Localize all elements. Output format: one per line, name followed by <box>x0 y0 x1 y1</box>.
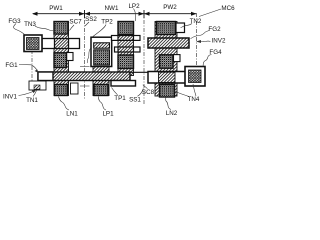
svg-text:FG4: FG4 <box>209 49 222 56</box>
gate FG1 bar <box>38 72 130 81</box>
gate FG3 bar right segment <box>69 39 80 49</box>
gate FG4 bar <box>148 72 189 84</box>
NW1 span arrow <box>85 12 145 16</box>
contact block LP2 mid <box>118 55 134 69</box>
leader LN1 <box>59 97 70 111</box>
leader TN3 <box>35 26 53 31</box>
LN2 crossing hatch <box>159 72 176 82</box>
gate edges over LP2 second <box>118 46 135 48</box>
svg-text:SC8: SC8 <box>142 89 155 96</box>
well boundary SS2 chain line <box>84 12 86 99</box>
leader TN4 <box>174 91 189 97</box>
svg-text:TP2: TP2 <box>101 19 113 26</box>
shared contact box TP2 <box>91 37 112 66</box>
leader LP1 <box>99 97 107 111</box>
active region LN1 strip <box>54 22 69 96</box>
gate FG3 bar left segment <box>42 39 55 49</box>
cell boundary chain line right <box>196 13 198 66</box>
contact block LN2 top <box>157 22 176 35</box>
leader LN2 <box>166 98 172 110</box>
tab box right of LN2 top <box>176 23 185 33</box>
leader FG2 <box>191 31 210 39</box>
contact block LN1 mid <box>54 53 67 68</box>
active region LN2 strip <box>155 22 177 97</box>
active region LP2 strip <box>118 22 134 76</box>
shared contact SC8 bar <box>111 81 136 87</box>
gate contact FG3 outer box <box>24 35 42 52</box>
svg-text:LN1: LN1 <box>66 111 78 118</box>
gate bar over LP2 second left seg <box>115 47 119 52</box>
contact box right pad <box>189 70 202 83</box>
gate FG2 bar <box>148 38 189 48</box>
PW1 span arrow <box>32 12 85 16</box>
TN1 structure <box>29 81 46 90</box>
gate FG3 edges over strip <box>54 38 70 40</box>
shared contact pad TP2 <box>94 50 110 65</box>
leader LP2 <box>134 9 136 22</box>
stray leader near TP2 box <box>87 49 90 64</box>
svg-text:INV2: INV2 <box>212 38 226 45</box>
leader FG1 <box>19 65 38 72</box>
boundary tick x144 <box>143 10 145 18</box>
contact block LN1 bottom <box>55 85 68 96</box>
leader FG3 <box>14 24 26 36</box>
chain line cross dash upper <box>80 66 90 68</box>
svg-text:TP1: TP1 <box>114 95 126 102</box>
leader INV2 <box>199 40 211 43</box>
leader SC8 <box>143 85 148 89</box>
leader SS1 <box>138 89 144 97</box>
svg-text:TN2: TN2 <box>190 18 202 25</box>
svg-text:TN4: TN4 <box>188 96 200 103</box>
cell boundary chain line left <box>31 50 33 81</box>
svg-text:SS1: SS1 <box>129 97 141 104</box>
gate edges over LP2 top <box>118 35 135 37</box>
svg-text:SC7: SC7 <box>69 19 82 26</box>
contact box right outer <box>185 67 205 87</box>
gate contact FG3 inner pad <box>27 38 40 50</box>
svg-text:INV1: INV1 <box>3 94 17 101</box>
contact block LN2 bottom <box>160 85 175 98</box>
leader TN2 <box>181 24 193 28</box>
leader INV1 <box>19 92 34 96</box>
svg-text:LN2: LN2 <box>166 110 178 117</box>
svg-text:FG3: FG3 <box>8 18 21 25</box>
leader SC7 <box>70 25 75 31</box>
svg-text:NW1: NW1 <box>105 5 119 12</box>
leader FG4 <box>203 55 212 67</box>
leader TN1 <box>33 91 37 97</box>
tab right of LN1 bottom <box>71 83 79 94</box>
leader TP2 <box>93 25 107 37</box>
svg-text:TN1: TN1 <box>26 97 38 104</box>
leader TP1 <box>112 88 118 95</box>
leader TN4 second <box>193 84 196 96</box>
active region LP1 strip <box>93 66 109 96</box>
svg-text:SS2: SS2 <box>85 16 97 23</box>
contact SC7 block on LN1 top <box>54 22 68 35</box>
gate bar over LP2 top left seg <box>112 36 119 41</box>
svg-text:PW1: PW1 <box>49 5 63 12</box>
leader SS2 <box>85 22 89 26</box>
svg-text:LP2: LP2 <box>128 3 140 10</box>
contact block LP2 top <box>118 22 134 35</box>
TN1 inner mark <box>34 85 40 89</box>
boundary tick x84.5 <box>84 10 86 18</box>
svg-text:MC6: MC6 <box>221 5 235 12</box>
svg-text:FG1: FG1 <box>5 62 18 69</box>
tab right of LN2 mid <box>174 55 181 62</box>
gate stub in TP2 box <box>94 43 110 48</box>
gate FG1 left end pad <box>38 72 53 81</box>
contact block LP1 bottom <box>94 85 108 96</box>
leader MC6 <box>199 9 221 17</box>
tab right of LN1 mid <box>67 53 74 61</box>
rail segment <box>129 71 149 73</box>
well boundary SS1 chain line <box>143 12 145 104</box>
contact block LN2 mid <box>160 55 174 68</box>
gate bar over LP2 second right seg <box>134 47 141 52</box>
chain line cross dash lower <box>80 85 90 87</box>
svg-text:PW2: PW2 <box>163 4 177 11</box>
svg-text:FG2: FG2 <box>208 26 221 33</box>
PW2 span arrow <box>144 12 197 16</box>
svg-text:TN3: TN3 <box>24 21 36 28</box>
svg-text:LP1: LP1 <box>102 111 114 118</box>
gate bar over LP2 top right seg <box>134 36 141 41</box>
